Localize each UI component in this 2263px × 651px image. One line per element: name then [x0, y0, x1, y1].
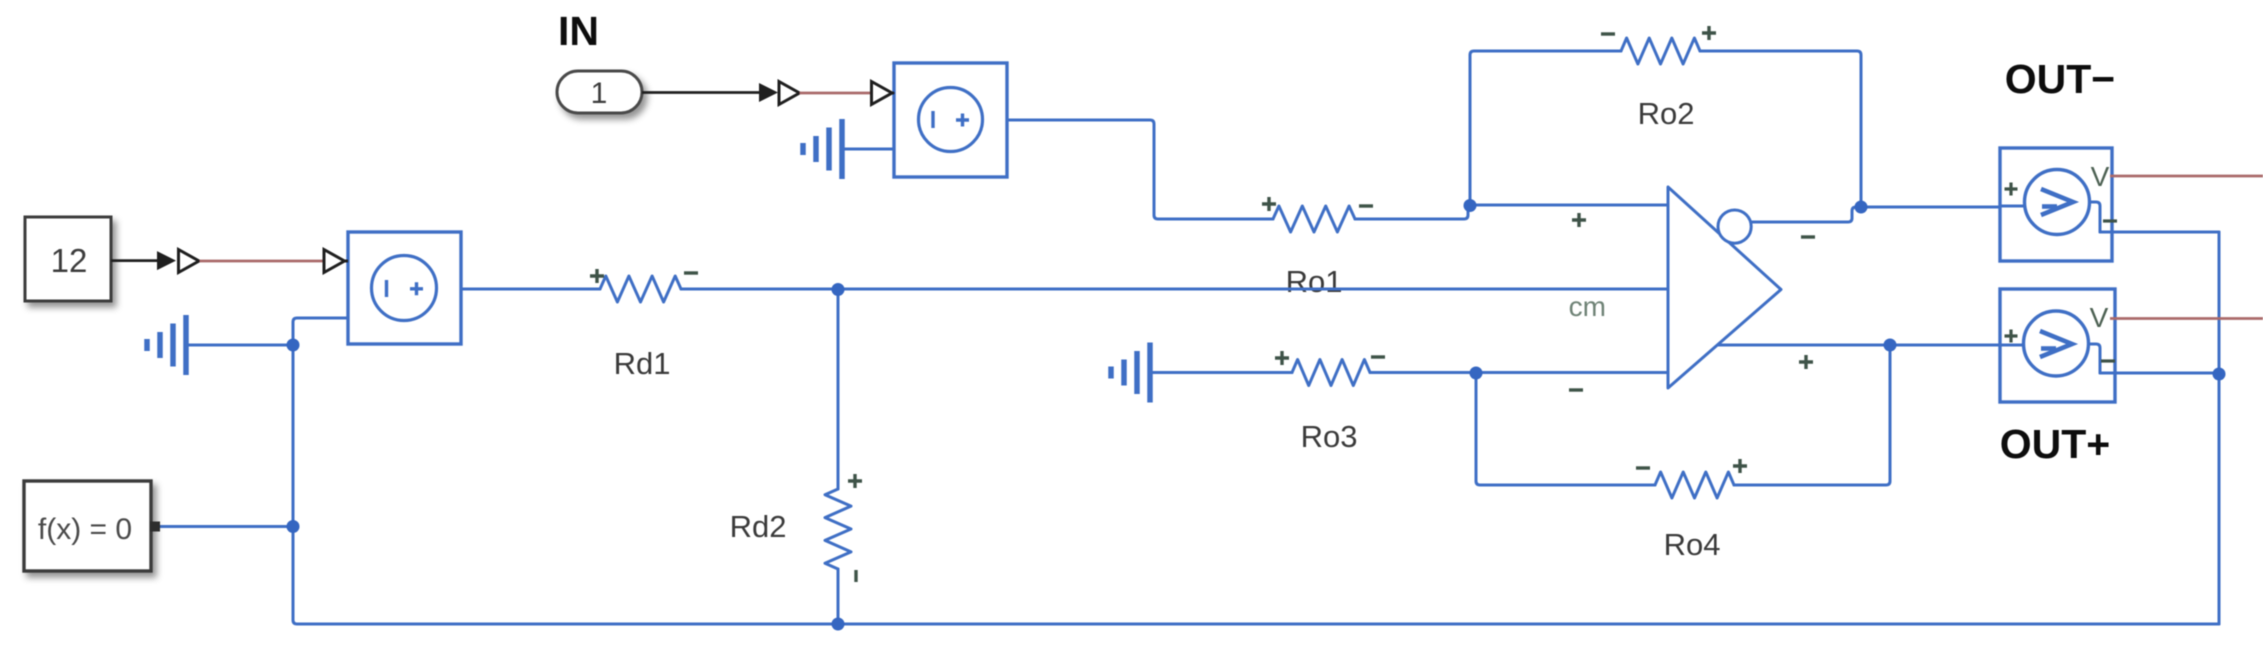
wire — [186, 344, 293, 347]
resistor Ro4 — [1655, 472, 1734, 498]
svg-text:OUT−: OUT− — [2005, 56, 2116, 102]
wire: left vertical rail — [293, 345, 2219, 624]
wire — [1476, 373, 1655, 485]
op-amp U1 (fully differential) — [1569, 187, 1815, 390]
svg-text:1: 1 — [591, 77, 608, 110]
wire: solver block connection — [160, 525, 293, 528]
simulink-PS converter (12) — [179, 250, 200, 273]
svg-text:Ro1: Ro1 — [1286, 264, 1343, 299]
resistor Rd2 — [825, 489, 851, 569]
svg-text:f(x) = 0: f(x) = 0 — [38, 513, 132, 546]
svg-text:12: 12 — [51, 242, 88, 279]
wire: Ro2 right leg down to output node — [1700, 51, 1861, 207]
svg-text:OUT+: OUT+ — [2000, 421, 2111, 467]
svg-text:V: V — [2090, 302, 2109, 333]
wire: node to Rd2 — [837, 289, 840, 489]
node: solver join — [287, 520, 300, 533]
svg-text:IN: IN — [558, 8, 599, 54]
wire: physical signal — [200, 260, 325, 263]
ground (top source reference) — [839, 119, 845, 179]
wire: constant to converter — [111, 259, 158, 262]
svg-text:Rd2: Rd2 — [730, 509, 787, 544]
wire: op-amp noninverting output to OUT+ sensor — [1710, 344, 2000, 347]
node: Rd2 / bottom rail — [832, 618, 845, 631]
node: out+ / Ro4 — [1884, 339, 1897, 352]
ground (left source reference) — [183, 315, 189, 375]
wire: Ro3 to op-amp inverting input — [1370, 371, 1668, 374]
wire: OUT+ sensor V output (physical signal) — [2110, 317, 2263, 320]
wire: Ro2 feedback loop left leg — [1470, 51, 1621, 205]
node: Ro2 left / +input — [1464, 199, 1477, 212]
constant block 12 — [25, 217, 111, 301]
voltage sensor (OUT+) — [2000, 289, 2115, 402]
svg-text:Rd1: Rd1 — [614, 346, 671, 381]
wire: inport to converter — [642, 91, 760, 94]
node: Rd1 / Rd2 — [832, 283, 845, 296]
resistor Ro2 — [1621, 38, 1700, 64]
wire: physical signal — [800, 92, 872, 95]
resistor Ro3 — [1292, 360, 1370, 386]
svg-text:cm: cm — [1569, 291, 1606, 322]
solver configuration block f(x)=0 — [24, 481, 151, 571]
node: sensor minus rail — [2213, 368, 2226, 381]
wire: left voltage source output to op-amp cm input (through Rd1) — [461, 288, 600, 291]
resistor Ro1 — [1273, 206, 1355, 232]
wire — [681, 288, 1668, 291]
wire: Rd2 to bottom rail — [837, 569, 840, 624]
node: left ground — [287, 339, 300, 352]
wire: Ro4 branch from output+ node — [1734, 345, 1890, 485]
resistor Rd1 — [600, 276, 681, 302]
svg-text:Ro2: Ro2 — [1638, 96, 1695, 131]
inport 1 — [557, 71, 642, 113]
svg-text:Ro3: Ro3 — [1301, 419, 1358, 454]
wire: ground node up to source - terminal — [293, 318, 348, 345]
ground (Ro3 reference) — [1147, 343, 1153, 403]
port triangle into source — [892, 92, 894, 95]
controlled voltage source (12 path) — [348, 232, 461, 344]
wire: OUT+ sensor minus terminal — [2100, 372, 2219, 375]
wire — [842, 148, 894, 151]
node: out- / Ro2 right — [1855, 201, 1868, 214]
wire: right vertical rail — [2218, 232, 2221, 624]
wire — [1355, 205, 1668, 219]
node: Ro3 / Ro4 — [1470, 367, 1483, 380]
wire: OUT- sensor V output (physical signal) — [2110, 175, 2263, 178]
simulink-PS converter (IN) — [779, 82, 800, 105]
wire: top voltage source output to op-amp noninverting input (through Ro1) — [1007, 120, 1273, 219]
port triangle into source — [345, 260, 349, 263]
controlled voltage source (IN path) — [894, 63, 1007, 177]
wire — [1150, 371, 1292, 374]
svg-text:Ro4: Ro4 — [1664, 527, 1721, 562]
wire: op-amp inverting output to OUT- sensor — [1751, 207, 2000, 222]
voltage sensor (OUT-) — [2000, 148, 2117, 261]
svg-text:V: V — [2091, 161, 2110, 192]
wire: OUT- sensor minus terminal — [2100, 231, 2219, 234]
